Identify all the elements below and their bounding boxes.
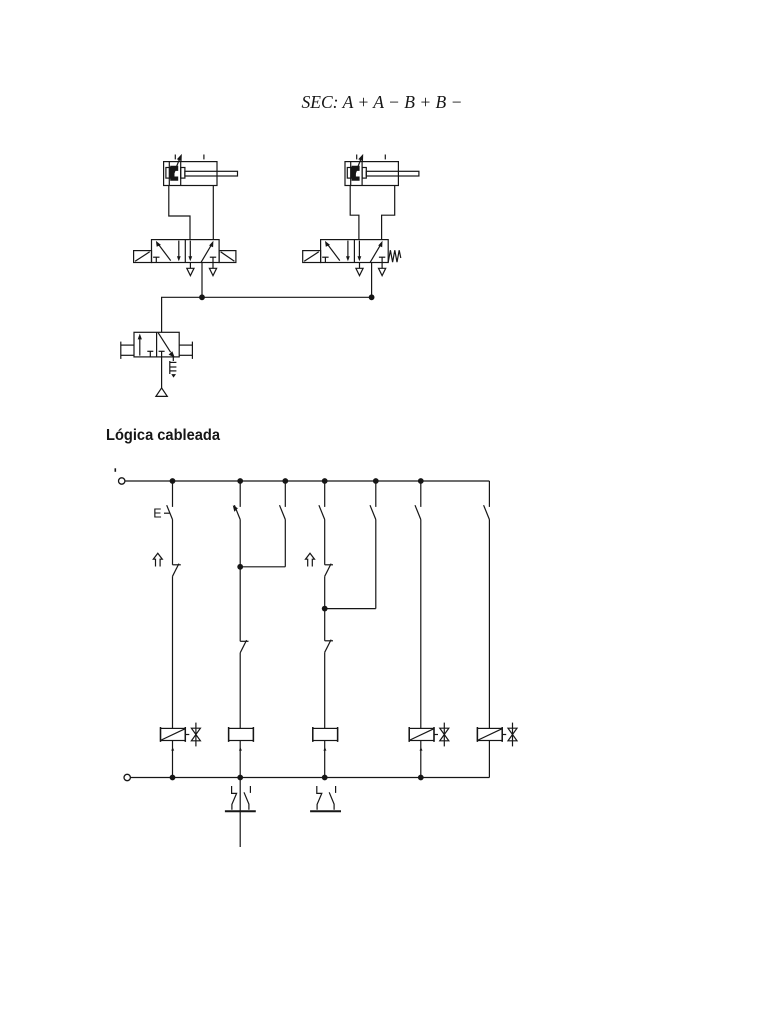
relay coil K1 column 2 (229, 727, 254, 742)
wire column 7 to coil Y3 (488, 520, 490, 729)
compressed air supply triangle (156, 388, 167, 397)
relay contact (NO) column 6 (415, 505, 421, 519)
wire column 1 to coil Y1 (172, 576, 174, 728)
wire cylinder B left port to valve B port 4 (350, 186, 359, 240)
relay contact (NC) lower column 4 (325, 640, 333, 653)
valve actuation symbol below column 4 (310, 786, 341, 811)
wire valve B port 1 down to manifold (371, 262, 373, 297)
wire column 5 down to branch (375, 520, 377, 609)
cylinder A (double-acting) (164, 154, 238, 186)
valve actuation symbol below column 2 (225, 786, 256, 811)
actuation arrow at column 1 limit switch (153, 553, 162, 566)
wire column 4 to branch node (324, 576, 326, 641)
wire column 2 from rail to contact (239, 481, 241, 507)
relay contact (NO) column 7 (484, 505, 490, 519)
title text SEC: A + A - B + B - (302, 92, 463, 112)
relay contact (NO) column 3 (280, 505, 286, 519)
return terminal circle 0V (124, 774, 130, 780)
bottom return rail wire (131, 777, 490, 779)
junction node top rail column 1 (170, 478, 176, 484)
junction node top rail column 5 (373, 478, 379, 484)
relay contact (NO) column 4 (319, 505, 325, 519)
relay coil K2 column 4 (313, 727, 338, 742)
wire column 1 between contacts (172, 520, 174, 565)
supply terminal circle +24V (119, 478, 125, 484)
junction node top rail column 2 (237, 478, 243, 484)
actuation arrow at column 4 limit switch (306, 553, 315, 566)
junction node at valve B supply (369, 294, 375, 300)
pushbutton contact (NO with actuator arrow) column 2 (233, 505, 240, 519)
tick mark above left supply terminal (114, 468, 116, 472)
limit switch contact (NC) column 4 (325, 564, 333, 577)
top supply rail wire (125, 480, 489, 482)
wire coil K1 to bottom rail (239, 741, 242, 778)
relay contact (NC) lower column 2 (240, 640, 248, 653)
valve icon beside coil Y1 (191, 723, 200, 747)
solenoid coil Y3 column 7 (477, 727, 506, 742)
junction node bottom rail column 1 (170, 775, 176, 781)
svg-text:Lógica cableada: Lógica cableada (106, 427, 220, 444)
3/2 valve (supply/start valve) (121, 332, 193, 359)
wire column 2 to coil K1 (239, 653, 241, 729)
wire cylinder B right port to valve B port 2 (382, 186, 395, 240)
wire column 2 below rail (239, 778, 241, 848)
wire 3/2 valve port 1 to air supply (161, 357, 163, 388)
wire column 5 from rail to contact (375, 481, 377, 507)
5/2 valve for cylinder A (double pilot) (134, 240, 236, 276)
junction node bottom rail column 2 (237, 775, 243, 781)
wire column 4 from rail to contact (324, 481, 326, 507)
wire coil Y3 to bottom rail (488, 741, 490, 778)
wire column 6 from rail to contact (420, 481, 422, 507)
limit switch contact (NC) column 1 (173, 564, 181, 577)
heading text Logica cableada (106, 427, 220, 444)
junction node top rail column 3 (282, 478, 288, 484)
junction node at valve A supply (199, 294, 205, 300)
wire column 4 between contacts (324, 520, 326, 565)
valve icon beside coil Y3 (508, 723, 517, 747)
wire column 4 to coil K2 (324, 652, 326, 728)
junction node top rail column 6 (418, 478, 424, 484)
detent symbol on 3/2 valve (170, 357, 177, 378)
branch wire column 2 to column 3 (240, 566, 285, 568)
solenoid coil Y1 column 1 (161, 727, 190, 742)
wire coil Y1 to bottom rail (171, 741, 174, 778)
wire column 3 down to branch (284, 520, 286, 567)
wire column 2 to branch node (239, 520, 241, 642)
svg-text:E: E (153, 507, 161, 521)
wire cylinder A right port to valve A port 2 (212, 186, 214, 240)
wire coil K2 to bottom rail (323, 741, 326, 778)
5/2 valve for cylinder B (pilot / spring return) (303, 240, 401, 276)
wire column 7 from rail corner to contact (488, 481, 490, 507)
branch wire column 4 to column 5 (325, 608, 376, 610)
contact E (NO) column 1 (167, 505, 173, 519)
junction node top rail column 4 (322, 478, 328, 484)
solenoid coil Y2 column 6 (409, 727, 438, 742)
wire column 1 from rail to contact E (172, 481, 174, 507)
wire column 6 to coil Y2 (420, 520, 422, 729)
wire cylinder A left port to valve A port 4 (169, 186, 190, 240)
junction node bottom rail column 4 (322, 775, 328, 781)
wire column 3 from rail to contact (284, 481, 286, 507)
svg-text:SEC: A + A − B + B −: SEC: A + A − B + B − (302, 92, 463, 112)
junction node column 2 branch (237, 564, 243, 570)
junction node column 4 branch (322, 606, 328, 612)
wire valve A port 1 down to manifold (201, 263, 203, 298)
relay contact (NO) column 5 (370, 505, 376, 519)
label E for contact (153, 507, 170, 521)
wire coil Y2 to bottom rail (420, 741, 423, 778)
junction node bottom rail column 6 (418, 775, 424, 781)
cylinder B (double-acting) (345, 154, 419, 186)
supply manifold wire (162, 297, 372, 332)
valve icon beside coil Y2 (440, 723, 449, 747)
